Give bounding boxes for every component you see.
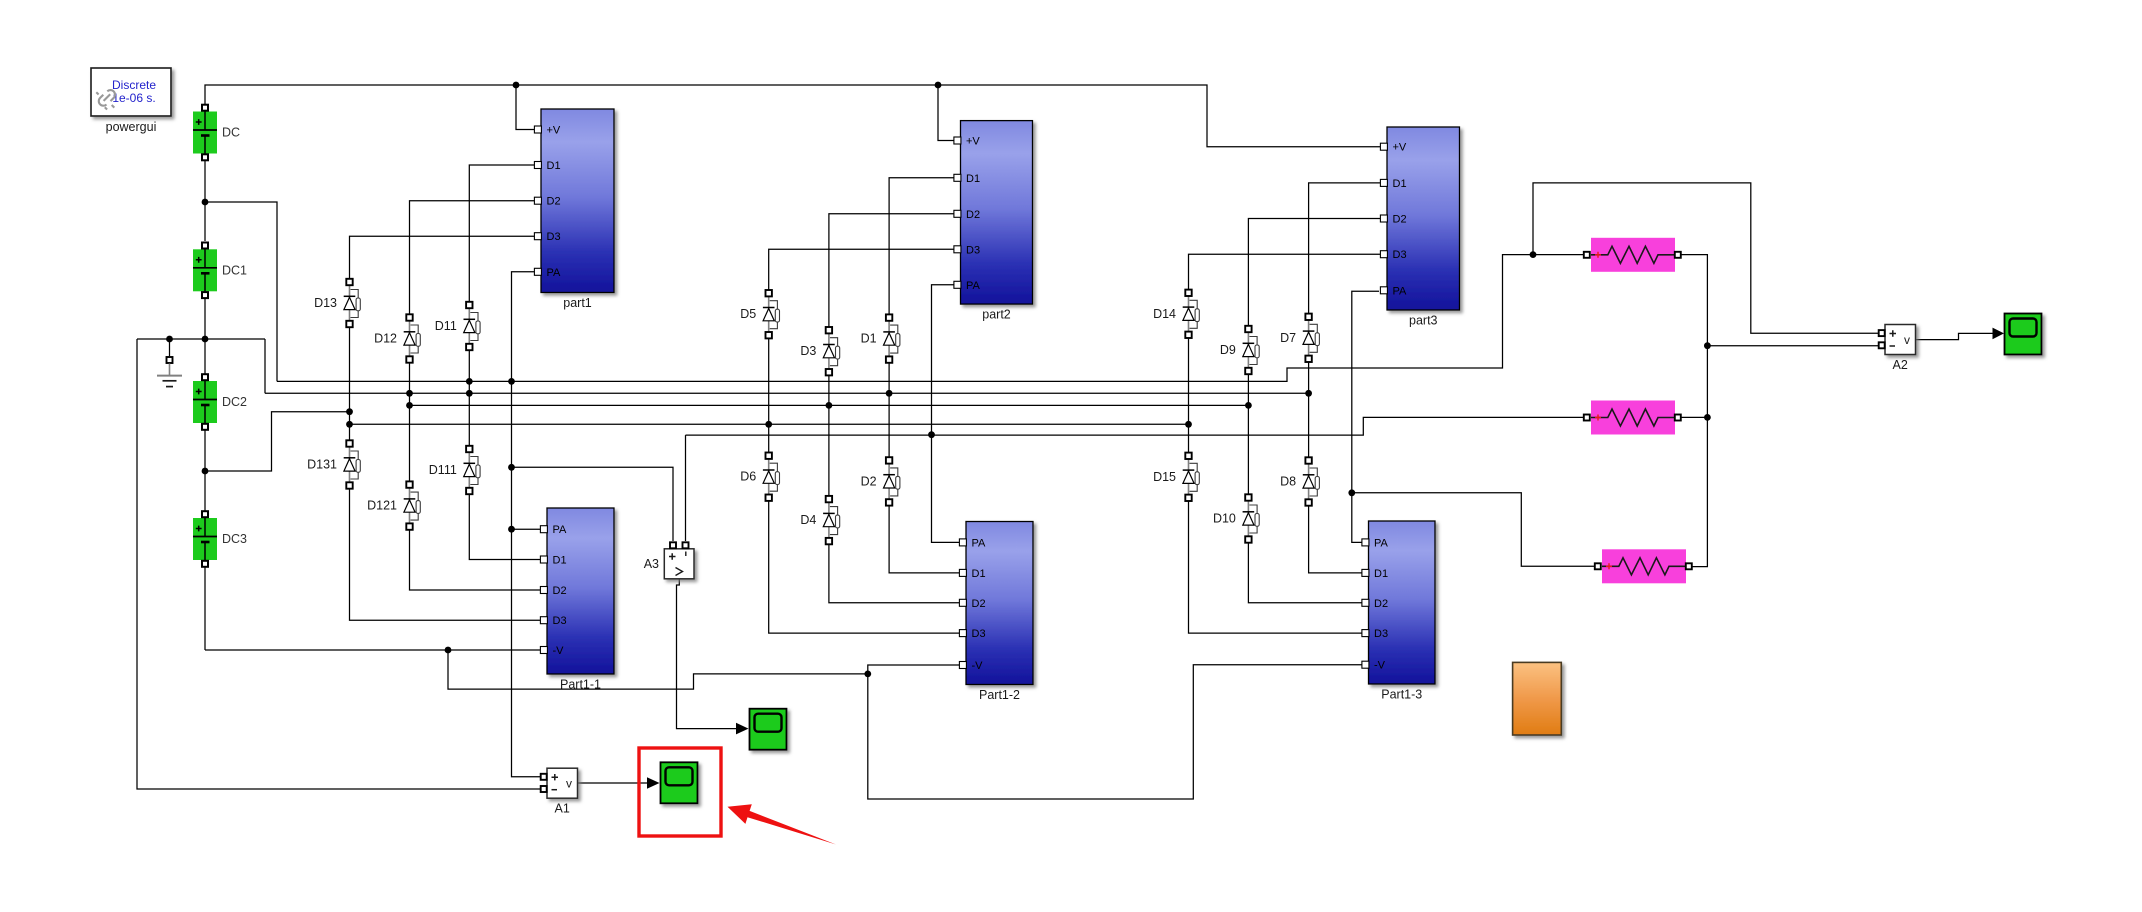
- junction top rail / part2 +V: [935, 82, 942, 89]
- voltage measurement A2: [1879, 325, 1916, 373]
- diode D15: [1153, 453, 1199, 501]
- svg-text:D9: D9: [1220, 343, 1236, 357]
- svg-text:DC3: DC3: [222, 532, 247, 546]
- wire top rail to part2 +V: [938, 85, 956, 141]
- DC voltage source DC1: [193, 243, 247, 299]
- wire ground to A1- left rail: [137, 339, 540, 789]
- junction bus393 / D11 column: [466, 390, 473, 397]
- svg-text:PA: PA: [966, 280, 981, 292]
- wire part3 PA net: [1352, 291, 1379, 542]
- wire part2 D3 to D5: [769, 249, 956, 290]
- diode D1: [861, 314, 900, 362]
- svg-text:A3: A3: [644, 557, 659, 571]
- wire -V to Part1-2: [868, 665, 961, 674]
- scope Scope2: [2005, 314, 2042, 355]
- junction bus435 / PA2 column: [928, 431, 935, 438]
- svg-text:D14: D14: [1153, 307, 1176, 321]
- svg-text:D2: D2: [1374, 598, 1388, 610]
- svg-text:Discrete: Discrete: [112, 78, 156, 92]
- svg-text:PA: PA: [547, 267, 562, 279]
- diode D121: [367, 481, 420, 529]
- junction ground tap: [166, 336, 173, 343]
- svg-text:D1: D1: [1393, 178, 1407, 190]
- junction right bus / R2: [1704, 414, 1711, 421]
- wire PA3 net to resistor R3: [1352, 493, 1594, 566]
- svg-text:+V: +V: [1393, 142, 1407, 154]
- svg-text:+V: +V: [547, 125, 561, 137]
- svg-text:DC1: DC1: [222, 263, 247, 277]
- svg-text:D11: D11: [435, 319, 457, 333]
- wire part1 PA net: [512, 272, 541, 777]
- node A junction DC-DC1: [202, 199, 209, 206]
- diode D3: [800, 327, 839, 375]
- wire bus424: [350, 423, 1189, 425]
- resistor R load 3: [1595, 549, 1692, 583]
- wire D11 to D111 column: [468, 349, 470, 447]
- wire D9 to D10 column: [1247, 371, 1249, 493]
- svg-text:D5: D5: [740, 307, 756, 321]
- wire bus381: [277, 255, 1583, 382]
- junction bus424 / D15 column: [1185, 421, 1192, 428]
- wire D121 to Part1-1 D2: [410, 527, 543, 590]
- svg-text:D1: D1: [972, 568, 986, 580]
- wire node3 branch: [205, 412, 350, 471]
- subsystem block Part1-3: [1362, 521, 1435, 702]
- wire R1 right bus: [1679, 255, 1707, 567]
- svg-text:D2: D2: [1393, 214, 1407, 226]
- wire bus393: [265, 392, 1309, 394]
- wire DC2 to DC3: [204, 430, 206, 511]
- diode D13: [314, 279, 360, 327]
- svg-text:powergui: powergui: [106, 120, 157, 134]
- wire part3 D1 to D7: [1309, 183, 1383, 314]
- wire D13 to D131 column: [349, 325, 351, 441]
- junction bus381 / PA1 column: [508, 378, 515, 385]
- resistor R load 2: [1584, 401, 1681, 435]
- wire -V rail jog: [448, 650, 868, 689]
- svg-text:DC2: DC2: [222, 395, 247, 409]
- wire ground stub: [169, 339, 171, 356]
- wire A2 out to Scope2: [1916, 333, 1995, 339]
- svg-text:D3: D3: [800, 344, 816, 358]
- svg-text:Part1-2: Part1-2: [979, 688, 1020, 702]
- wire D131 to Part1-1 D3: [350, 486, 543, 621]
- diode D6: [740, 453, 779, 501]
- svg-text:D2: D2: [972, 598, 986, 610]
- diode D5: [740, 290, 779, 338]
- orange annotation block: [1513, 662, 1562, 735]
- svg-text:D2: D2: [547, 196, 561, 208]
- svg-text:D111: D111: [429, 463, 457, 477]
- wire bus405: [410, 404, 1249, 406]
- svg-text:D3: D3: [1393, 249, 1407, 261]
- junction R1 left / A2+ branch: [1530, 251, 1537, 258]
- wire D2 to Part1-2 D1: [889, 502, 961, 573]
- svg-text:-V: -V: [1374, 660, 1386, 672]
- subsystem block Part1-2: [959, 522, 1033, 703]
- junction bus393 / D12 column: [406, 390, 413, 397]
- svg-text:D3: D3: [1374, 628, 1388, 640]
- junction -V rail / Part1-2: [864, 671, 871, 678]
- wire D12 to D121 column: [409, 360, 411, 482]
- wire part1 D3 to D13: [350, 236, 537, 279]
- wire D1 to D2 column: [888, 360, 890, 457]
- wire part2 D2 to D3: [829, 214, 956, 327]
- svg-text:D2: D2: [966, 209, 980, 221]
- wire PA net to A3+: [512, 467, 674, 541]
- wire R2 right link: [1679, 416, 1707, 418]
- svg-text:DC: DC: [222, 126, 240, 140]
- wire part3 D2 to D9: [1248, 219, 1383, 327]
- arrowhead into Scope1: [736, 723, 749, 735]
- svg-text:D3: D3: [547, 231, 561, 243]
- resistor R load 1: [1584, 238, 1681, 272]
- svg-text:D1: D1: [966, 173, 980, 185]
- wire bus435: [686, 417, 1584, 435]
- wire A1 out to Scope3: [578, 782, 649, 784]
- junction PA3 column / R3 branch: [1348, 489, 1355, 496]
- svg-text:v: v: [566, 777, 572, 791]
- wire bus435 drop to A3: [685, 435, 687, 541]
- svg-text:A1: A1: [555, 802, 570, 816]
- subsystem block part1: [534, 109, 614, 310]
- svg-text:D1: D1: [547, 160, 561, 172]
- junction bus405 / D3 column: [826, 402, 833, 409]
- svg-text:part2: part2: [982, 308, 1011, 322]
- DC voltage source DC2: [193, 374, 247, 430]
- svg-text:D121: D121: [367, 499, 397, 513]
- svg-text:D131: D131: [307, 458, 337, 472]
- diode D12: [374, 314, 420, 362]
- DC voltage source DC3: [193, 511, 247, 567]
- wire ground row: [137, 338, 265, 340]
- diode D9: [1220, 326, 1259, 374]
- node B junction DC1-DC2: [202, 336, 209, 343]
- svg-text:+V: +V: [966, 136, 980, 148]
- subsystem block part2: [954, 121, 1033, 322]
- junction -V rail branch: [445, 647, 452, 654]
- wire -V rail to Part1-1: [205, 649, 542, 651]
- junction bus411 / D13 column: [346, 408, 353, 415]
- wire DC+ top rail: [205, 85, 1384, 147]
- svg-text:D15: D15: [1153, 470, 1176, 484]
- wire D10 to Part1-3 D2: [1248, 541, 1363, 603]
- svg-text:D2: D2: [861, 474, 877, 488]
- voltage measurement A3: [644, 542, 694, 579]
- svg-text:D12: D12: [374, 332, 397, 346]
- wire part3 D3 to D14: [1189, 254, 1384, 290]
- svg-text:-V: -V: [553, 645, 565, 657]
- junction bus405 / D9 column: [1245, 402, 1252, 409]
- junction right bus / A2- branch: [1704, 342, 1711, 349]
- voltage measurement A1: [541, 768, 578, 816]
- wire part1 D2 to D12: [410, 201, 537, 315]
- wire A3 out to Scope1: [677, 579, 738, 729]
- svg-text:D1: D1: [861, 332, 877, 346]
- DC voltage source DC: [193, 105, 240, 161]
- svg-text:1e-06 s.: 1e-06 s.: [112, 91, 155, 105]
- wire node1 branch: [205, 202, 277, 381]
- diode D4: [800, 496, 839, 544]
- wire part2 D1 to D1: [889, 178, 956, 315]
- wire D8 to Part1-3 D1: [1309, 504, 1363, 573]
- diode D14: [1153, 290, 1199, 338]
- wire D111 to Part1-1 D1: [469, 492, 542, 560]
- wire A2+ branch: [1533, 183, 1878, 333]
- diode D131: [307, 440, 360, 488]
- scope Scope1: [750, 709, 787, 750]
- svg-text:D7: D7: [1280, 331, 1296, 345]
- svg-text:part1: part1: [563, 296, 592, 310]
- node C junction DC2-DC3: [202, 468, 209, 475]
- arrowhead into Scope3: [647, 777, 660, 789]
- svg-text:D4: D4: [800, 513, 816, 527]
- junction bus381 / D11 column: [466, 378, 473, 385]
- svg-text:PA: PA: [972, 537, 987, 549]
- wire D3 to D4 column: [828, 372, 830, 496]
- svg-text:D8: D8: [1280, 475, 1296, 489]
- svg-text:v: v: [1904, 333, 1910, 347]
- ground symbol: [157, 357, 182, 387]
- wire part1 D1 to D11: [469, 165, 536, 302]
- svg-text:D1: D1: [553, 555, 567, 567]
- wire A2- branch: [1707, 345, 1878, 347]
- powergui block: [91, 68, 171, 134]
- junction bus424 / D6 column: [765, 421, 772, 428]
- svg-text:D6: D6: [740, 470, 756, 484]
- diode D111: [429, 446, 480, 494]
- svg-text:D3: D3: [553, 615, 567, 627]
- wire D14 to D15 column: [1188, 336, 1190, 453]
- svg-text:PA: PA: [1393, 285, 1408, 297]
- junction bus393 / D7 column: [1305, 390, 1312, 397]
- junction bus393 / D1 column: [886, 390, 893, 397]
- svg-text:A2: A2: [1893, 358, 1908, 372]
- wire D4 to Part1-2 D2: [829, 540, 961, 603]
- wire top rail to part1 +V: [516, 85, 536, 130]
- wire DC1 to DC2: [204, 298, 206, 374]
- svg-text:Part1-1: Part1-1: [560, 678, 601, 692]
- wire -V to Part1-3: [868, 665, 1363, 799]
- diode D7: [1280, 314, 1319, 362]
- wire D15 to Part1-3 D3: [1189, 497, 1364, 633]
- svg-text:PA: PA: [553, 524, 568, 536]
- svg-text:D1: D1: [1374, 568, 1388, 580]
- diode D11: [435, 302, 480, 350]
- subsystem block part3: [1380, 127, 1459, 328]
- wire D5 to D6 column: [768, 336, 770, 453]
- svg-text:D2: D2: [553, 585, 567, 597]
- junction bus424 / D13 column: [346, 421, 353, 428]
- svg-text:D3: D3: [972, 628, 986, 640]
- wire node2 branch: [264, 339, 266, 393]
- diode D2: [861, 457, 900, 505]
- diode D10: [1213, 494, 1259, 542]
- junction PA1 column / Part1-1 PA: [508, 526, 515, 533]
- svg-text:Part1-3: Part1-3: [1381, 688, 1422, 702]
- diode D8: [1280, 457, 1319, 505]
- svg-text:D13: D13: [314, 296, 337, 310]
- svg-text:PA: PA: [1374, 537, 1389, 549]
- wire part2 PA net: [932, 285, 962, 543]
- wire DC3 to -V rail: [204, 567, 206, 650]
- junction bus405 / D12 column: [406, 402, 413, 409]
- svg-text:D10: D10: [1213, 512, 1236, 526]
- arrowhead into Scope2: [1993, 328, 2005, 340]
- junction top rail / part1 +V: [513, 82, 520, 89]
- red annotation arrow: [728, 804, 837, 844]
- scope Scope3 (highlighted): [661, 762, 698, 803]
- wire PA net to Part1-1 PA: [512, 528, 543, 530]
- svg-text:D3: D3: [966, 244, 980, 256]
- wire D7 to D8 column: [1308, 360, 1310, 458]
- subsystem block Part1-1: [540, 508, 614, 692]
- junction PA1 column / A3 branch: [508, 464, 515, 471]
- wire D6 to Part1-2 D3: [769, 497, 961, 633]
- wire DC to DC1: [204, 158, 206, 241]
- svg-text:part3: part3: [1409, 314, 1438, 328]
- svg-text:-V: -V: [972, 660, 984, 672]
- red highlight box: [639, 748, 721, 836]
